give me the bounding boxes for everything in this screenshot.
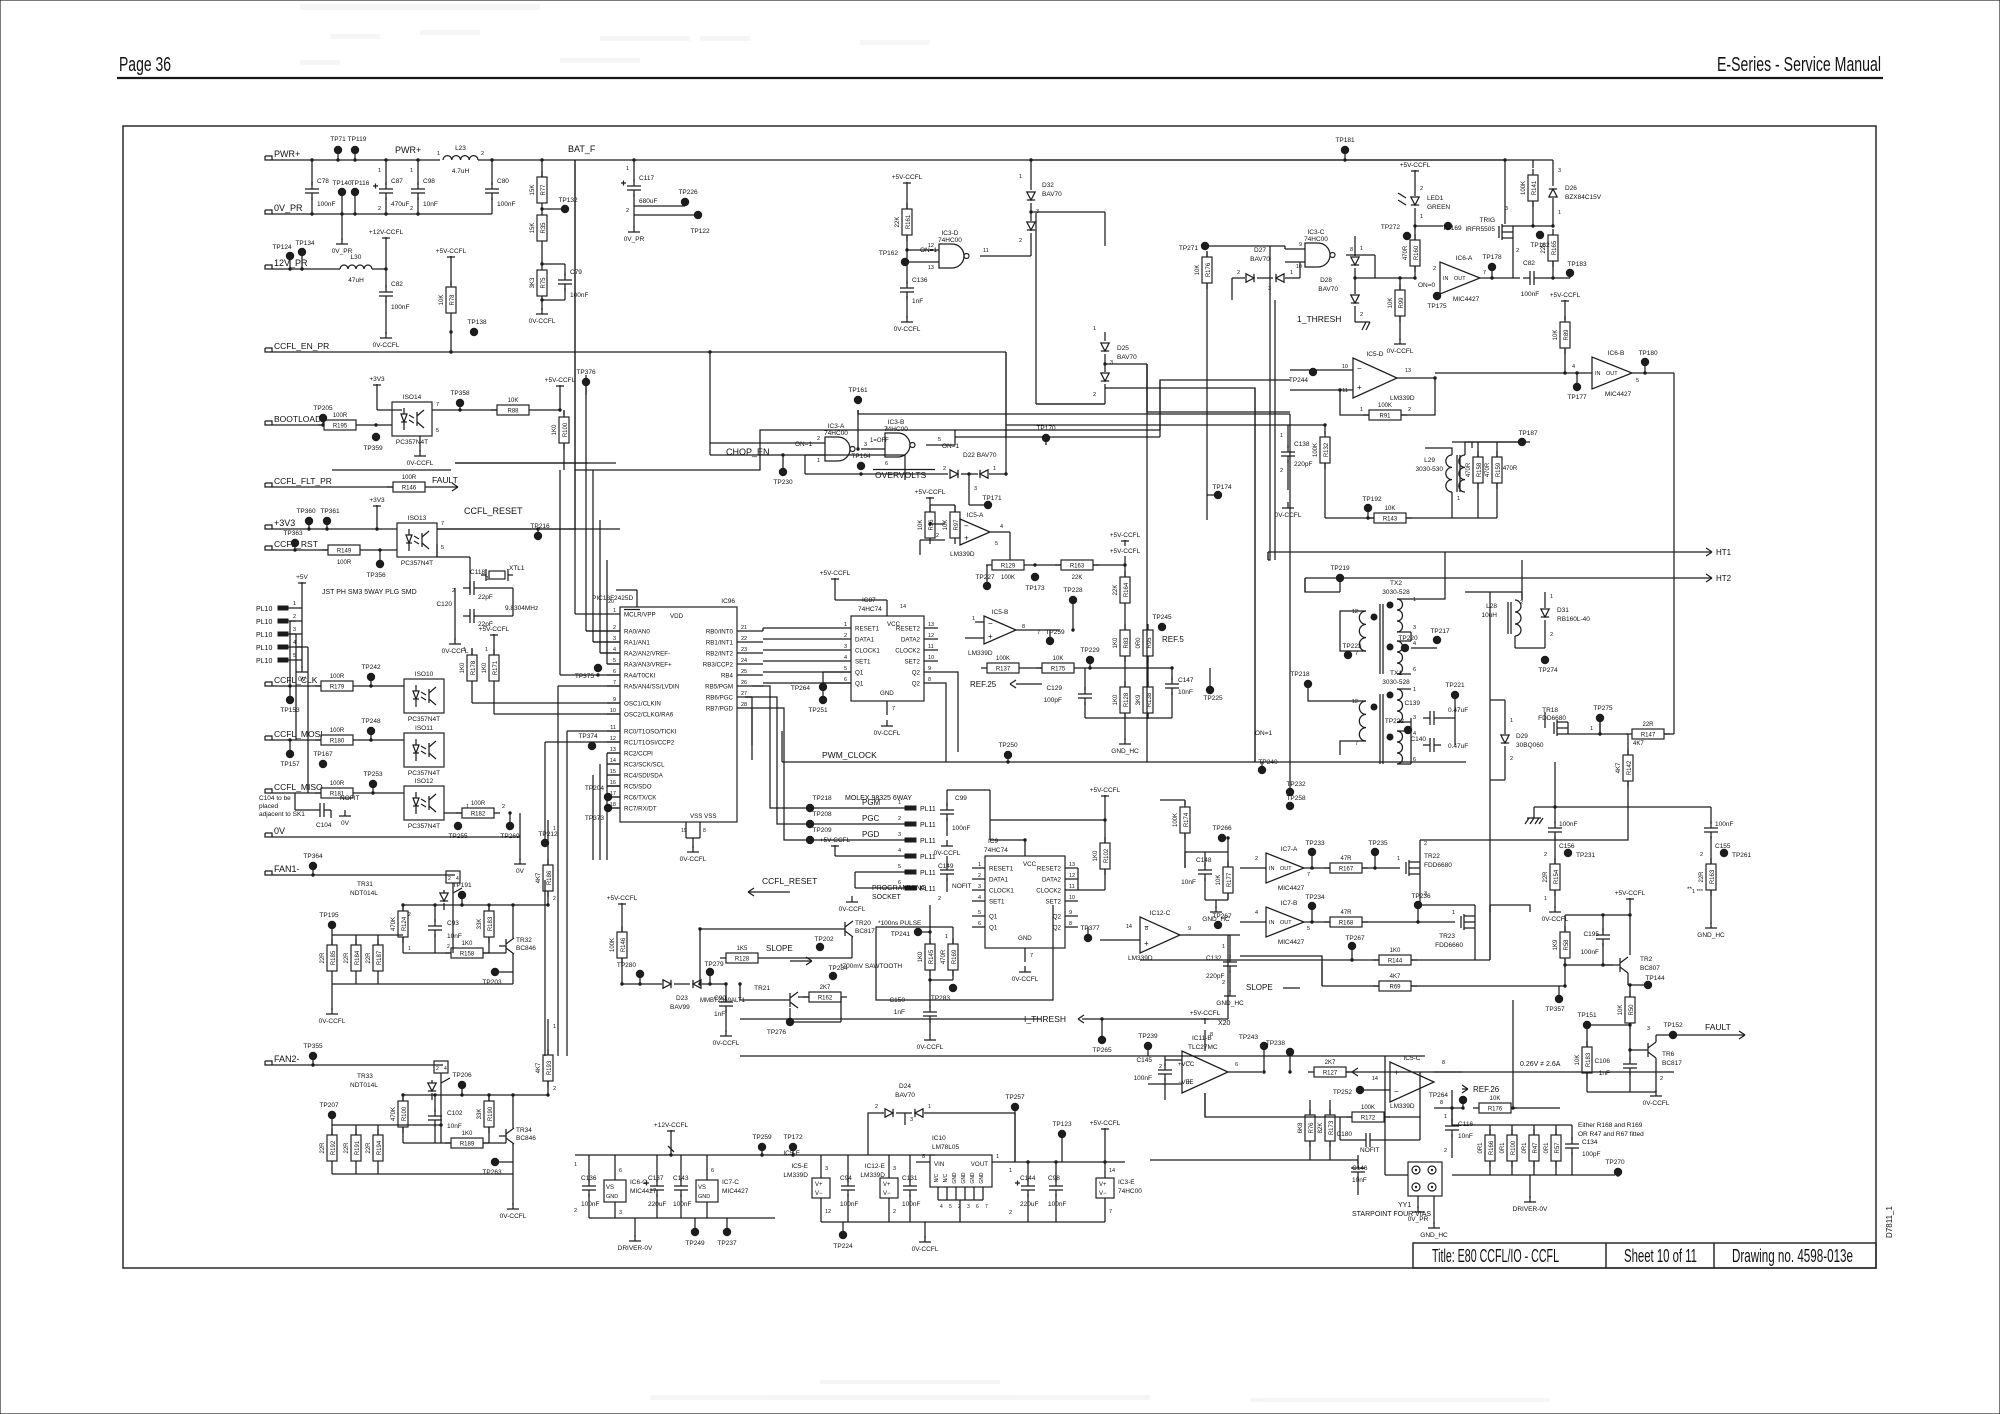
wire tr22 src bbox=[1419, 874, 1421, 905]
svg-text:VSS VSS: VSS VSS bbox=[690, 813, 716, 820]
wire bus B bbox=[1146, 364, 1148, 762]
svg-text:7: 7 bbox=[436, 402, 439, 408]
wire tr18 drain bbox=[1568, 733, 1628, 735]
transistor TR2 BC807 bbox=[1619, 958, 1621, 972]
svg-text:PC357N4T: PC357N4T bbox=[396, 439, 428, 446]
transistor TR32 bbox=[505, 939, 507, 953]
svg-text:R176: R176 bbox=[1488, 1107, 1503, 1113]
wire drv rail bbox=[575, 1154, 775, 1156]
ground DRIVER-0V bbox=[634, 1235, 636, 1241]
resistor R88 bbox=[497, 405, 529, 415]
svg-text:TP259: TP259 bbox=[752, 1134, 772, 1141]
wire crystal net bbox=[454, 588, 456, 616]
svg-text:470K: 470K bbox=[391, 1107, 397, 1121]
svg-text:47R: 47R bbox=[1340, 856, 1352, 862]
svg-text:TP167: TP167 bbox=[313, 751, 333, 758]
svg-text:R191: R191 bbox=[355, 1140, 361, 1155]
svg-text:0V-CCFL: 0V-CCFL bbox=[839, 906, 866, 913]
svg-text:TP276: TP276 bbox=[767, 1029, 787, 1036]
resistor R166 bbox=[1485, 1135, 1495, 1161]
wire ic9 q1bar loop bbox=[876, 905, 1053, 1000]
svg-text:C180: C180 bbox=[1336, 1131, 1352, 1138]
svg-text:VDD: VDD bbox=[670, 613, 684, 620]
capacitor C78 bbox=[311, 160, 313, 185]
svg-text:TP251: TP251 bbox=[808, 707, 828, 714]
IC3-E 74HC00 V+ V- bbox=[1096, 1178, 1114, 1198]
svg-text:C78: C78 bbox=[317, 178, 329, 185]
gate IC3-D bbox=[939, 244, 964, 268]
resistor R164 bbox=[1120, 577, 1130, 603]
wire bus Y bbox=[1204, 1093, 1206, 1117]
svg-text:BAV70: BAV70 bbox=[895, 1092, 915, 1099]
svg-text:11: 11 bbox=[610, 725, 616, 731]
svg-text:9: 9 bbox=[1299, 242, 1302, 248]
wire bus Q bbox=[544, 880, 546, 1056]
svg-text:0V-CCFL: 0V-CCFL bbox=[1542, 916, 1569, 923]
test point TP223 bbox=[1344, 651, 1352, 659]
svg-text:3: 3 bbox=[974, 486, 977, 492]
diode D29 30BQ060 bbox=[1501, 735, 1509, 743]
resistor R76 bbox=[1305, 1115, 1315, 1141]
resistor R161 bbox=[902, 209, 912, 235]
svg-text:14: 14 bbox=[900, 604, 906, 610]
ground 0V_PR bbox=[1417, 1206, 1419, 1212]
svg-text:0V: 0V bbox=[341, 820, 350, 827]
capacitor C129 bbox=[1084, 668, 1086, 690]
svg-text:TP263: TP263 bbox=[482, 1169, 502, 1176]
svg-text:TP250: TP250 bbox=[998, 742, 1018, 749]
svg-text:100K: 100K bbox=[1313, 443, 1319, 457]
svg-text:0V-CCFL: 0V-CCFL bbox=[1012, 976, 1039, 983]
svg-text:R99: R99 bbox=[1399, 297, 1405, 309]
resistor R195 bbox=[324, 420, 356, 430]
svg-text:2: 2 bbox=[574, 1208, 577, 1214]
svg-text:R193: R193 bbox=[547, 1060, 553, 1075]
svg-text:adjacent to SK1: adjacent to SK1 bbox=[259, 811, 305, 818]
svg-text:7: 7 bbox=[1037, 630, 1040, 636]
wire tr22 drain up bbox=[1419, 840, 1421, 862]
svg-text:JST PH SM3 5WAY PLG SMD: JST PH SM3 5WAY PLG SMD bbox=[322, 589, 417, 596]
ground 0V-CCFL bbox=[851, 896, 853, 902]
svg-text:+VCC: +VCC bbox=[1178, 1062, 1195, 1068]
svg-text:CLOCK2: CLOCK2 bbox=[895, 648, 920, 655]
svg-text:RB3/CCP2: RB3/CCP2 bbox=[703, 662, 734, 669]
resistor R191 bbox=[351, 1135, 361, 1161]
svg-text:+12V-CCFL: +12V-CCFL bbox=[369, 229, 404, 236]
wire ic5d out bbox=[1397, 377, 1435, 379]
svg-text:TP223: TP223 bbox=[1342, 643, 1362, 650]
wire bus bbox=[599, 520, 601, 653]
svg-text:47R: 47R bbox=[1340, 910, 1352, 916]
wire bus D bbox=[857, 410, 859, 414]
test point TP376 bbox=[582, 378, 590, 386]
svg-text:GND: GND bbox=[1018, 935, 1032, 942]
svg-text:D27: D27 bbox=[1254, 247, 1266, 254]
svg-text:0V-CCFL: 0V-CCFL bbox=[1387, 348, 1414, 355]
svg-text:1nF: 1nF bbox=[714, 1011, 725, 1018]
svg-text:TP239: TP239 bbox=[1138, 1033, 1158, 1040]
wire ic11 minus bbox=[1165, 1059, 1182, 1061]
svg-text:D32: D32 bbox=[1042, 182, 1054, 189]
capacitor C136 bbox=[906, 262, 908, 284]
svg-text:IC5-E: IC5-E bbox=[791, 1163, 808, 1170]
svg-text:TP375: TP375 bbox=[575, 673, 595, 680]
svg-text:100nF: 100nF bbox=[1559, 821, 1577, 828]
svg-text:TP364: TP364 bbox=[303, 853, 323, 860]
test point TP172 bbox=[789, 1143, 797, 1151]
svg-text:PROGRAMMING: PROGRAMMING bbox=[872, 885, 926, 892]
svg-text:7: 7 bbox=[613, 680, 616, 686]
svg-text:0V-CCFL: 0V-CCFL bbox=[1643, 1100, 1670, 1107]
svg-text:OVERVOLTS: OVERVOLTS bbox=[875, 470, 927, 480]
svg-text:R146: R146 bbox=[621, 937, 627, 952]
wire pwm drop bbox=[1261, 762, 1263, 770]
svg-text:Title: E80 CCFL/IO - CCFL: Title: E80 CCFL/IO - CCFL bbox=[1432, 1246, 1559, 1266]
resistor R162 bbox=[809, 992, 841, 1002]
svg-text:R95: R95 bbox=[1147, 637, 1153, 649]
svg-text:+: + bbox=[964, 534, 969, 543]
resistor R95 bbox=[1143, 630, 1153, 656]
svg-text:10nF: 10nF bbox=[447, 933, 462, 940]
svg-text:R69: R69 bbox=[1389, 985, 1401, 991]
capacitor C180 NOFIT bbox=[1365, 1133, 1367, 1147]
ground 0V_PR bbox=[633, 226, 635, 232]
svg-text:33K: 33K bbox=[477, 919, 483, 930]
wire 1056 long bbox=[740, 1055, 1425, 1057]
svg-text:TP170: TP170 bbox=[1036, 425, 1056, 432]
svg-text:TP123: TP123 bbox=[1052, 1121, 1072, 1128]
svg-text:100K: 100K bbox=[1173, 813, 1179, 827]
svg-text:IC5-E: IC5-E bbox=[783, 1150, 800, 1157]
svg-text:4K7: 4K7 bbox=[1390, 974, 1401, 980]
svg-text:TP209: TP209 bbox=[812, 827, 832, 834]
pin 9 OSC1/CLKIN bbox=[607, 702, 620, 704]
wire slope arrow bbox=[1283, 987, 1300, 989]
svg-text:9.8304MHz: 9.8304MHz bbox=[505, 605, 538, 612]
svg-text:TP229: TP229 bbox=[1080, 647, 1100, 654]
test point TP276 bbox=[786, 1018, 794, 1026]
test point TP283 bbox=[949, 984, 957, 992]
capacitor C138 220pF bbox=[1287, 425, 1289, 448]
wire RA4 long bbox=[560, 674, 620, 676]
transistor TR20 bbox=[844, 922, 846, 936]
test point TP271 bbox=[1201, 242, 1209, 250]
resistor bank R192 R191 R194 22R bbox=[331, 1125, 333, 1135]
resistor R124 bbox=[398, 911, 408, 937]
svg-text:V−: V− bbox=[815, 1191, 823, 1197]
svg-text:1nF: 1nF bbox=[894, 1009, 905, 1016]
wire route D25 down bbox=[1036, 403, 1105, 405]
wire bus R bbox=[1465, 591, 1522, 593]
resistor bank 0R1 bbox=[1489, 1125, 1491, 1135]
svg-text:3030-530: 3030-530 bbox=[1416, 466, 1444, 473]
test point TP170 bbox=[1042, 434, 1050, 442]
svg-text:−: − bbox=[988, 619, 993, 628]
svg-text:R161: R161 bbox=[906, 214, 912, 229]
ground 0V-CCFL ic10 bbox=[924, 1222, 926, 1238]
wire bus C bbox=[1289, 414, 1291, 792]
wire rows 5 6 bbox=[854, 872, 856, 888]
svg-text:1K0: 1K0 bbox=[1093, 850, 1099, 861]
svg-text:13: 13 bbox=[610, 747, 616, 753]
svg-text:100nF: 100nF bbox=[952, 825, 970, 832]
IC87 pin 11 bbox=[924, 649, 938, 651]
svg-text:7: 7 bbox=[1355, 651, 1358, 657]
svg-text:6: 6 bbox=[978, 921, 981, 927]
svg-text:TR31: TR31 bbox=[357, 881, 373, 888]
svg-text:PWM_CLOCK: PWM_CLOCK bbox=[822, 750, 877, 760]
svg-text:1: 1 bbox=[1397, 856, 1400, 862]
svg-text:IC11-B: IC11-B bbox=[1192, 1035, 1212, 1042]
svg-text:1: 1 bbox=[378, 168, 381, 174]
svg-text:0V_PR: 0V_PR bbox=[1408, 1216, 1429, 1223]
svg-text:1: 1 bbox=[1009, 1168, 1012, 1174]
resistor R183 33K bbox=[488, 905, 490, 911]
test point TP162 bbox=[901, 258, 909, 266]
svg-text:R158: R158 bbox=[460, 952, 475, 958]
svg-text:TP280: TP280 bbox=[617, 962, 637, 969]
svg-text:IC10: IC10 bbox=[932, 1135, 946, 1142]
op-amp IC12-C bbox=[1140, 917, 1180, 953]
test point TP243 bbox=[1260, 1042, 1268, 1050]
wire bus A bbox=[574, 160, 576, 529]
op-amp IC5-C bbox=[1390, 1062, 1434, 1102]
svg-text:D23: D23 bbox=[676, 995, 688, 1002]
svg-text:1: 1 bbox=[1558, 210, 1561, 216]
wire rb link bbox=[763, 660, 851, 662]
svg-text:15: 15 bbox=[610, 769, 616, 775]
svg-text:3: 3 bbox=[898, 832, 901, 838]
svg-text:TP178: TP178 bbox=[1482, 254, 1502, 261]
svg-text:V−: V− bbox=[883, 1191, 891, 1197]
svg-text:1: 1 bbox=[1444, 1114, 1447, 1120]
test point TP222 bbox=[1404, 726, 1412, 734]
svg-text:2: 2 bbox=[1510, 756, 1513, 762]
svg-text:100nF: 100nF bbox=[1521, 291, 1539, 298]
resistor R138 bbox=[1143, 687, 1153, 713]
wire tr18 gate bbox=[1544, 712, 1546, 728]
ground crystal bbox=[454, 616, 456, 640]
svg-text:10nF: 10nF bbox=[423, 201, 438, 208]
svg-text:30BQ060: 30BQ060 bbox=[1516, 742, 1544, 749]
svg-text:R173: R173 bbox=[1329, 1120, 1335, 1135]
svg-text:RA4/T0CKI: RA4/T0CKI bbox=[624, 673, 656, 680]
svg-text:TP264: TP264 bbox=[1429, 1092, 1449, 1099]
wire bus P bbox=[740, 1018, 1041, 1020]
svg-text:R129: R129 bbox=[1001, 564, 1016, 570]
wire vout right bbox=[1010, 1161, 1105, 1163]
svg-text:+5V-CCFL: +5V-CCFL bbox=[1400, 162, 1431, 169]
svg-text:BAT_F: BAT_F bbox=[568, 144, 596, 154]
wire D32 mid right bbox=[1031, 211, 1105, 213]
resistor R186 bbox=[543, 865, 553, 891]
driver IC6-B bbox=[1592, 357, 1632, 389]
svg-text:10K: 10K bbox=[1490, 1096, 1501, 1102]
svg-text:10nF: 10nF bbox=[447, 1123, 462, 1130]
svg-text:TP253: TP253 bbox=[363, 771, 383, 778]
svg-text:NOFIT: NOFIT bbox=[340, 795, 360, 802]
resistor R83 1K0 bbox=[1124, 609, 1126, 630]
ground 0V-CCFL bbox=[1655, 1090, 1657, 1096]
svg-text:470R: 470R bbox=[1503, 466, 1518, 472]
svg-text:15K: 15K bbox=[530, 223, 536, 234]
svg-text:9: 9 bbox=[928, 666, 931, 672]
ground 0V-CCFL bbox=[331, 1008, 333, 1014]
svg-text:FDD6660: FDD6660 bbox=[1435, 942, 1463, 949]
svg-text:10: 10 bbox=[928, 655, 934, 661]
svg-text:+5V-CCFL: +5V-CCFL bbox=[1550, 292, 1581, 299]
svg-text:IC3-C: IC3-C bbox=[1308, 229, 1325, 236]
svg-text:VCC: VCC bbox=[1023, 861, 1037, 868]
wire from right into IC3B bbox=[954, 437, 956, 445]
svg-text:1: 1 bbox=[1544, 896, 1547, 902]
wire right edge loop bbox=[1673, 373, 1675, 552]
wire ht2 vertical bbox=[1304, 578, 1306, 592]
svg-text:3K3: 3K3 bbox=[530, 277, 536, 288]
svg-text:6: 6 bbox=[711, 1168, 714, 1174]
svg-text:12: 12 bbox=[825, 1209, 831, 1215]
svg-text:LM339D: LM339D bbox=[783, 1172, 808, 1179]
svg-text:Drawing no. 4598-013e: Drawing no. 4598-013e bbox=[1732, 1246, 1853, 1266]
svg-text:100nF: 100nF bbox=[581, 1201, 599, 1208]
test point TP231 bbox=[1564, 849, 1572, 857]
optocoupler ISO10 bbox=[404, 679, 444, 713]
test point TP355 bbox=[309, 1052, 317, 1060]
resistor R176 bbox=[1202, 257, 1212, 283]
svg-text:1: 1 bbox=[463, 647, 466, 653]
pin 14 RC3/SCK/SCL bbox=[607, 763, 620, 765]
test point TP363 bbox=[291, 539, 299, 547]
test point TP373 bbox=[604, 804, 612, 812]
svg-text:4: 4 bbox=[898, 848, 901, 854]
svg-text:C102: C102 bbox=[447, 1110, 463, 1117]
test point TP174 bbox=[1214, 491, 1222, 499]
wire ccfl_reset to PIC bbox=[437, 528, 620, 530]
svg-text:TR20: TR20 bbox=[855, 920, 871, 927]
svg-text:5: 5 bbox=[1307, 926, 1310, 932]
svg-text:MIC4427: MIC4427 bbox=[1278, 885, 1305, 892]
resistor R141 bbox=[1528, 175, 1538, 201]
svg-text:7: 7 bbox=[1307, 872, 1310, 878]
svg-text:REF.26: REF.26 bbox=[1473, 1085, 1500, 1094]
wire 12V rail bbox=[272, 268, 340, 270]
ground 0V bbox=[344, 810, 346, 816]
svg-text:R183: R183 bbox=[488, 916, 494, 931]
test point TP227 bbox=[983, 582, 991, 590]
svg-text:FAN2-: FAN2- bbox=[274, 1054, 300, 1064]
svg-text:C98: C98 bbox=[1048, 1175, 1060, 1182]
resistor R189 bbox=[451, 1138, 483, 1148]
test point TP235 bbox=[1371, 848, 1379, 856]
svg-text:D7811_1: D7811_1 bbox=[1885, 1206, 1894, 1238]
svg-text:2: 2 bbox=[978, 873, 981, 879]
test point TP238 bbox=[1286, 1048, 1294, 1056]
wire bus T bbox=[1489, 905, 1491, 960]
svg-text:1 ***: 1 *** bbox=[1692, 889, 1704, 895]
wire Q2 route a bbox=[938, 672, 958, 752]
pin 24 RB3/CCP2 bbox=[737, 663, 752, 665]
svg-text:PC357N4T: PC357N4T bbox=[401, 560, 433, 567]
svg-text:470R: 470R bbox=[1485, 462, 1491, 477]
svg-text:RC5/SDO: RC5/SDO bbox=[624, 784, 652, 791]
resistors R158 R159 470R bbox=[1471, 442, 1473, 448]
diode D26 zener bbox=[1549, 189, 1557, 197]
svg-text:C79: C79 bbox=[570, 269, 582, 276]
test point TP116 bbox=[351, 188, 359, 196]
wire right top bus bbox=[1534, 806, 1711, 808]
svg-text:22pF: 22pF bbox=[478, 594, 493, 601]
svg-text:TP124: TP124 bbox=[272, 244, 292, 251]
test point TP195 bbox=[328, 921, 336, 929]
wire drv gnd rail bbox=[589, 1217, 775, 1219]
svg-text:2: 2 bbox=[1237, 270, 1240, 276]
resistor R164 22K bbox=[1124, 565, 1126, 577]
svg-text:6: 6 bbox=[613, 669, 616, 675]
resistor R173 bbox=[1325, 1115, 1335, 1141]
svg-text:10nF: 10nF bbox=[1178, 689, 1193, 696]
svg-text:TP233: TP233 bbox=[1305, 840, 1325, 847]
svg-text:0V-CCFL: 0V-CCFL bbox=[917, 1044, 944, 1051]
resistor R83 bbox=[1120, 630, 1130, 656]
svg-text:D22 BAV70: D22 BAV70 bbox=[963, 452, 997, 459]
svg-text:26: 26 bbox=[741, 680, 747, 686]
resistor R187 bbox=[373, 945, 383, 971]
svg-text:0R1: 0R1 bbox=[1544, 1142, 1550, 1154]
svg-text:10K: 10K bbox=[1575, 1055, 1581, 1066]
wire PGM route bbox=[752, 686, 886, 808]
svg-text:IC96: IC96 bbox=[721, 598, 735, 605]
wire to right bbox=[1434, 377, 1436, 379]
diode D31 bbox=[1541, 609, 1549, 617]
svg-text:12: 12 bbox=[928, 633, 934, 639]
svg-text:*100ns PULSE: *100ns PULSE bbox=[878, 920, 922, 927]
test point TP181 bbox=[1341, 146, 1349, 154]
svg-text:10K: 10K bbox=[1053, 656, 1064, 662]
svg-text:RA3/AN3/VREF+: RA3/AN3/VREF+ bbox=[624, 662, 672, 669]
svg-text:4.7uH: 4.7uH bbox=[452, 168, 470, 175]
wire TP161 up bbox=[857, 410, 859, 414]
pin 23 RB2/INT2 bbox=[737, 652, 752, 654]
svg-text:MIC4427: MIC4427 bbox=[1605, 391, 1632, 398]
svg-text:2: 2 bbox=[1280, 468, 1283, 474]
svg-text:1: 1 bbox=[553, 1024, 556, 1030]
resistor bank R185 R184 R187 22R bbox=[331, 935, 333, 945]
net REF.26 bbox=[1434, 1071, 1462, 1073]
wire bus O bbox=[1146, 364, 1148, 412]
resistor R193 bbox=[543, 1055, 553, 1081]
ground 0V-CCFL bbox=[946, 840, 948, 846]
inductor L23 bbox=[443, 156, 478, 160]
test point TP375 bbox=[594, 664, 602, 672]
svg-text:6: 6 bbox=[976, 1204, 979, 1210]
mosfet TRIG IRFR5505 bbox=[1501, 224, 1503, 240]
svg-text:C140: C140 bbox=[1410, 736, 1426, 743]
svg-text:Either R168 and R169: Either R168 and R169 bbox=[1578, 1122, 1643, 1129]
svg-text:IRFR5505: IRFR5505 bbox=[1465, 226, 1495, 233]
svg-text:TP358: TP358 bbox=[450, 390, 470, 397]
wire bus I bbox=[1035, 213, 1037, 404]
svg-text:7: 7 bbox=[1030, 953, 1033, 959]
svg-text:470R: 470R bbox=[1466, 462, 1472, 477]
svg-text:+5V-CCFL: +5V-CCFL bbox=[1090, 787, 1121, 794]
svg-text:BAV70: BAV70 bbox=[1318, 286, 1338, 293]
svg-text:IC5-D: IC5-D bbox=[1367, 351, 1384, 358]
svg-text:TP206: TP206 bbox=[452, 1072, 472, 1079]
svg-text:C93: C93 bbox=[447, 920, 459, 927]
svg-text:Page 36: Page 36 bbox=[119, 54, 171, 76]
svg-text:0V-CCFL: 0V-CCFL bbox=[912, 1246, 939, 1253]
wire ic11 plus loop bbox=[1148, 1083, 1182, 1085]
